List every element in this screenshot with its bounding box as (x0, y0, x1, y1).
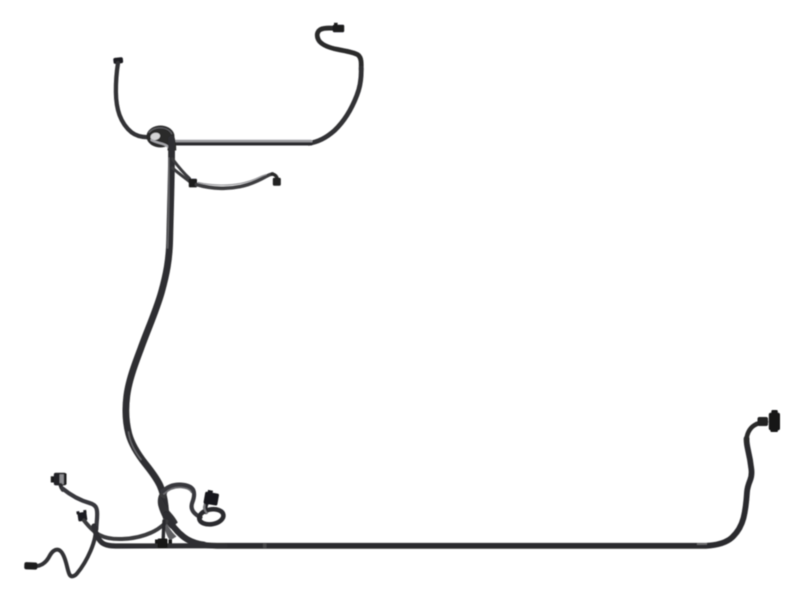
tube: branch fork lower strand (173, 168, 190, 182)
trunk highlight lower (129, 432, 142, 460)
connector C4 (left cluster) (51, 473, 67, 486)
tube: pigtail loop (198, 508, 224, 526)
coil bend right shoulder (165, 129, 176, 151)
coil inner highlight streak (152, 140, 170, 148)
tube: wavy branch (197, 174, 273, 188)
connector C1 (333, 23, 344, 32)
tube: hook branch off trunk (163, 485, 201, 518)
elbow highlight near connector C2 (204, 505, 207, 513)
tube: right elbow to connector C3 (746, 422, 766, 441)
wavy branch highlight (198, 175, 266, 185)
tube: diagonal from C4 to bend and down (63, 489, 98, 530)
hook underside shading (164, 487, 192, 493)
junction curve thickening overlay (166, 515, 204, 545)
tube: clip line sagging to junction (84, 521, 167, 540)
joint tick on bottom line (263, 543, 267, 548)
tube: top S-curve from connector C1 (317, 28, 361, 70)
trunk highlight upper (168, 158, 169, 248)
tube: bottom main line (junction to right corner and up) (166, 439, 752, 546)
tube: junction stub down to clip C7 (161, 521, 165, 539)
tube: descent into V squiggle to cap C5 (36, 528, 96, 576)
coil bend hole (150, 132, 161, 141)
tube: bottom line left extension with up-curl (94, 526, 225, 546)
coil bend mass (147, 126, 175, 148)
connector C2 (203, 489, 219, 505)
tube: right arm vertical with sweeping corner (309, 68, 361, 143)
tube: upper horizontal gray top edge (170, 140, 311, 143)
junction fill wedge (158, 494, 178, 529)
junction gray web (163, 518, 176, 541)
tube: left arm (116, 63, 147, 137)
tube: elbow up to connector C2 (205, 501, 210, 513)
joint highlight on bottom line (697, 543, 707, 545)
coil top separation line (149, 128, 172, 134)
connector C3 body (769, 410, 780, 432)
clip C6 (76, 510, 87, 522)
gray fill between trunk and hook base (160, 488, 169, 500)
tube: upper horizontal dark body (170, 142, 311, 145)
cap C5 (bottom-left squiggle end) (24, 562, 37, 570)
clip C7 below junction (155, 539, 172, 549)
cap C8 (left arm top cap) (113, 57, 123, 64)
clip K1 on wavy branch (189, 179, 197, 188)
fitting F1 at branch end (272, 174, 281, 186)
tube: branch fork upper strand (173, 159, 190, 179)
tube: C4 stub (61, 485, 63, 490)
tube: main trunk (126, 139, 172, 518)
connector C3 collar (758, 417, 769, 426)
